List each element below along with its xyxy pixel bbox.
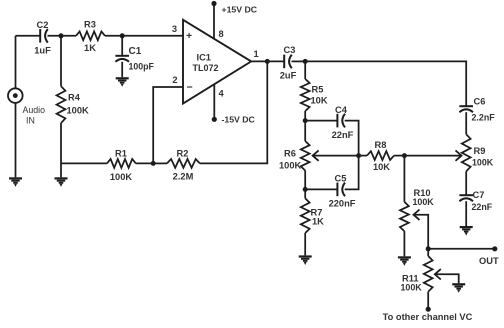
resistor R7 (304, 189, 306, 198)
wire R4 to bottom rail (60, 123, 62, 163)
svg-text:100K: 100K (110, 172, 133, 182)
svg-text:100K: 100K (67, 106, 90, 116)
svg-text:22nF: 22nF (472, 202, 493, 212)
svg-text:-15V DC: -15V DC (222, 115, 256, 125)
resistor R3 (76, 31, 105, 40)
wire out rail (428, 248, 495, 250)
capacitor C6 (459, 105, 473, 107)
svg-text:R8: R8 (375, 140, 387, 150)
wire audio to ground (15, 103, 17, 177)
svg-text:2uF: 2uF (280, 71, 297, 81)
wiper R9 arrow (456, 150, 462, 160)
svg-text:1uF: 1uF (34, 46, 51, 56)
wire feedback vertical (200, 61, 267, 163)
svg-text:R3: R3 (84, 20, 96, 30)
To-other-channel terminal (426, 307, 431, 312)
svg-text:4: 4 (219, 89, 225, 99)
wiper R10 arrow (414, 210, 420, 220)
svg-text:R1: R1 (115, 149, 127, 159)
resistor R8 (367, 151, 394, 160)
ground below R10 (398, 256, 411, 258)
wire C3 to node (292, 60, 306, 62)
ground below audio input (9, 177, 22, 179)
potentiometer R9 (465, 112, 467, 134)
audio input source (8, 88, 23, 103)
svg-text:R6: R6 (284, 149, 296, 159)
wire input to top rail (15, 36, 17, 89)
node after C3 (303, 59, 308, 64)
svg-text:100K: 100K (279, 161, 302, 171)
svg-text:1: 1 (254, 49, 259, 59)
wire C4 branch left (305, 120, 337, 122)
capacitor C5 (336, 183, 338, 197)
ground below R7 (299, 255, 312, 257)
node output junction (265, 59, 270, 64)
svg-text:+15V DC: +15V DC (222, 5, 258, 15)
pin 4 wire (213, 85, 215, 120)
svg-text:R5: R5 (312, 85, 324, 95)
ground below C7 (460, 226, 473, 228)
svg-text:1K: 1K (84, 43, 96, 53)
wire opamp output (251, 60, 284, 62)
+15V supply terminal (211, 1, 216, 6)
wire C2 to node (48, 35, 77, 37)
svg-text:R4: R4 (68, 93, 81, 103)
wire R2 to node (153, 162, 167, 164)
svg-text:22nF: 22nF (332, 130, 354, 140)
svg-text:IN: IN (26, 116, 35, 126)
svg-text:2: 2 (172, 75, 177, 85)
svg-text:100pF: 100pF (129, 62, 155, 72)
svg-text:C5: C5 (335, 174, 347, 184)
wire R8 to R9 wiper (404, 155, 460, 157)
wiper R6 arrow (313, 150, 319, 160)
ground below R4 (55, 177, 68, 179)
capacitor C4 (336, 114, 338, 128)
node out junction (426, 246, 431, 251)
wire inverting input (153, 87, 183, 163)
capacitor C1 (121, 36, 123, 56)
svg-text:C1: C1 (129, 46, 142, 57)
svg-text:2.2M: 2.2M (173, 172, 194, 182)
svg-text:+: + (186, 30, 192, 42)
wire bottom rail left (61, 162, 107, 164)
wire R11 bottom (427, 292, 429, 310)
node bracket-R8 junction (356, 153, 361, 158)
svg-text:C7: C7 (473, 190, 485, 200)
wire C1 to ground (121, 62, 123, 77)
node R1-R2 junction (151, 161, 156, 166)
resistor R4 (60, 36, 62, 86)
svg-text:3: 3 (172, 24, 177, 34)
wire C5 branch left (305, 188, 337, 190)
OUT terminal (492, 246, 497, 251)
svg-text:220nF: 220nF (329, 199, 356, 209)
svg-text:TL072: TL072 (193, 63, 219, 73)
resistor R5 (304, 61, 306, 79)
svg-text:1K: 1K (312, 217, 324, 227)
svg-text:R9: R9 (474, 146, 486, 156)
potentiometer R6 (301, 141, 310, 171)
wire C5 to bracket (345, 156, 359, 190)
svg-text:−: − (187, 82, 193, 94)
ground at R11 wiper (452, 283, 465, 285)
wiper R11 arrow (435, 269, 441, 279)
capacitor C7 (465, 171, 467, 195)
wire R3 to opamp + (105, 35, 183, 37)
resistor R2 (167, 159, 200, 168)
node C2-R3-R4 junction (59, 33, 64, 38)
node R3-C1 junction (120, 33, 125, 38)
svg-text:Audio: Audio (23, 105, 46, 115)
wire R4 to ground (60, 163, 62, 177)
node R5-C4-R6 junction (303, 118, 308, 123)
svg-text:R2: R2 (177, 149, 189, 159)
capacitor C2 (39, 29, 41, 43)
svg-text:100K: 100K (401, 283, 423, 293)
potentiometer R10 (403, 156, 405, 202)
capacitor C3 (283, 55, 285, 69)
wire R1 to node (136, 162, 153, 164)
node R8 output junction (402, 153, 407, 158)
svg-text:To other channel VC: To other channel VC (383, 312, 473, 322)
svg-text:2.2nF: 2.2nF (472, 113, 496, 123)
svg-text:C2: C2 (37, 20, 49, 30)
resistor R1 (107, 159, 136, 168)
wire C4 to bracket (345, 121, 359, 156)
ground below C1 (116, 77, 129, 79)
svg-text:10K: 10K (373, 162, 390, 172)
svg-text:OUT: OUT (479, 256, 499, 266)
svg-text:10K: 10K (311, 96, 328, 106)
svg-text:100K: 100K (472, 158, 494, 168)
svg-text:C4: C4 (335, 105, 348, 115)
op-amp U1 IC1 TL072 (183, 20, 251, 104)
wire top rail to C2 (16, 35, 41, 37)
potentiometer R11 (427, 249, 429, 256)
svg-text:8: 8 (219, 29, 224, 39)
svg-text:IC1: IC1 (197, 53, 211, 63)
svg-text:C3: C3 (284, 45, 296, 55)
pin 8 wire (213, 4, 215, 40)
wire R10 to ground (403, 231, 405, 256)
wire top rail to right column (305, 61, 466, 106)
svg-text:C6: C6 (474, 97, 486, 107)
svg-text:100K: 100K (413, 197, 435, 207)
-15V supply terminal (212, 117, 217, 122)
node R6-C5-R7 junction (303, 187, 308, 192)
wire C7 to ground (465, 201, 467, 226)
